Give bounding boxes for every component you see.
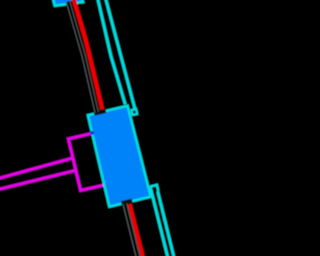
- wire (magenta trace lower, to left edge): [0, 170, 76, 189]
- pad P1 (top, blue with cyan border): [48, 0, 84, 6]
- courtyard outline J1 (magenta rectangle): [68, 129, 124, 191]
- trace T1 outline (black trace with gray edges, lower): [125, 204, 138, 256]
- wire (cyan trace C1 upper): [98, 0, 126, 105]
- wire (cyan trace C2 lower): [158, 191, 174, 256]
- pad P2 (center, blue with cyan border): [88, 106, 151, 207]
- wire (cyan connector jog at pad bottom right): [150, 185, 158, 191]
- wire (cyan trace C1 lower): [150, 186, 168, 256]
- trace end cap (dark notch at center pad, top): [93, 107, 106, 116]
- trace end cap (dark notch at center pad, bottom): [121, 199, 133, 207]
- trace R (red trace, lower): [130, 204, 143, 256]
- wire (magenta trace upper, to left edge): [0, 158, 73, 179]
- trace R (red trace, upper): [74, 0, 103, 110]
- wire (cyan trace C2 upper): [106, 0, 136, 110]
- trace end cap (dark notch at top pad): [66, 0, 76, 8]
- trace end cap (cyan jog at pad top right): [131, 109, 137, 115]
- trace T1 outline (black trace with gray edges, upper): [68, 2, 97, 113]
- node (blue junction dot on pad left border): [90, 131, 94, 135]
